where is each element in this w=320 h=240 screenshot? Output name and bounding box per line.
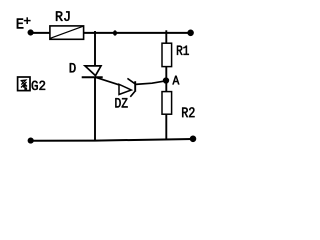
wire vertical top to R1 — [165, 30, 167, 43]
terminal dot E+ — [28, 30, 34, 36]
terminal dot top right — [188, 30, 194, 36]
label D — [70, 63, 76, 72]
label R1 — [177, 46, 189, 55]
resistor R2 — [162, 92, 172, 115]
wire diagonal from D cathode to DZ anode — [96, 77, 119, 84]
wire R2 to bottom wire — [165, 114, 167, 140]
label E+ — [17, 17, 31, 28]
resistor RJ — [50, 26, 84, 39]
label A — [173, 76, 180, 85]
node A dot — [163, 78, 169, 84]
label G2 — [32, 81, 45, 90]
wire from DZ cathode to node A — [136, 81, 167, 85]
wire top — [31, 32, 191, 34]
label CJK tu (figure) glyph box — [18, 77, 30, 91]
label RJ — [56, 11, 70, 21]
terminal dot bottom left — [28, 138, 34, 144]
wire node A to R2 — [165, 81, 167, 92]
wire R1 to node A — [165, 67, 167, 81]
zener diode DZ — [119, 78, 136, 96]
wire from diode D down to bottom wire — [94, 77, 96, 140]
terminal dot bottom right — [190, 136, 196, 142]
resistor R1 — [162, 43, 172, 66]
junction small dot on top wire — [113, 31, 116, 36]
label R2 — [182, 107, 194, 117]
label DZ — [115, 98, 127, 107]
wire vertical to diode D — [94, 31, 96, 66]
diode D — [82, 66, 103, 77]
wire bottom — [31, 139, 193, 141]
